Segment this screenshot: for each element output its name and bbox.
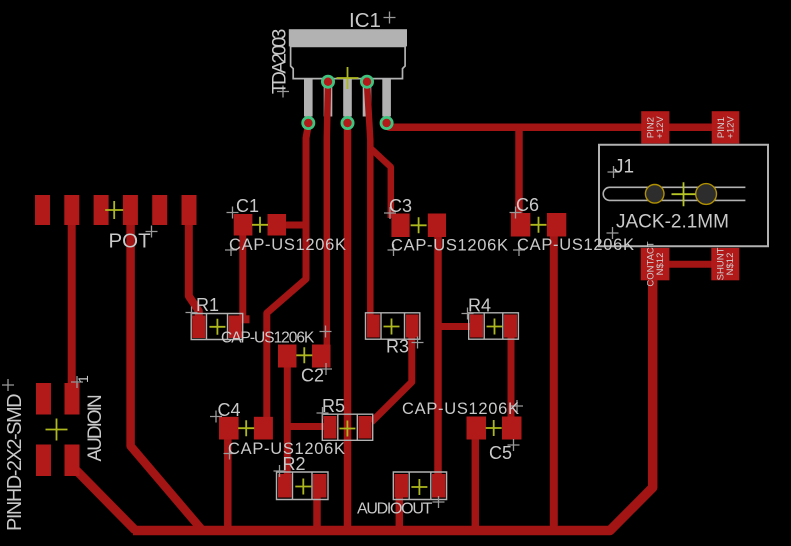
resistor R5 pads xyxy=(324,416,337,439)
wire C5 pad1 to ground bar xyxy=(472,435,480,530)
resistor R4 pads xyxy=(470,315,483,338)
text origin mark xyxy=(277,86,289,98)
J1 pin circle 2 xyxy=(696,184,717,205)
resistor AUDIOOUT outline xyxy=(393,472,446,500)
origin cross R5 xyxy=(339,421,355,437)
text origin mark xyxy=(2,379,14,391)
origin cross R3 xyxy=(384,319,400,335)
text origin mark xyxy=(71,376,83,388)
resistor AUDIOOUT pads xyxy=(395,474,409,498)
text origin mark xyxy=(510,207,522,219)
connector AUDIOIN PINHD-2X2-SMD pads xyxy=(36,383,51,415)
pad PIN1 +12V xyxy=(712,111,740,143)
svg-text:R3: R3 xyxy=(386,337,409,357)
wire branch +12V down to C6 pad1 xyxy=(515,127,523,216)
origin cross R4 xyxy=(487,319,503,335)
text origin mark xyxy=(225,244,237,256)
svg-text:C5: C5 xyxy=(489,443,512,463)
resistor R1 pads xyxy=(192,316,205,339)
svg-text:CAP-US1206K: CAP-US1206K xyxy=(391,237,509,255)
resistor R2 outline xyxy=(277,472,329,500)
text origin mark xyxy=(274,465,286,477)
resistor R3 pads xyxy=(367,315,380,338)
wire CONTACT pad to SHUNT pad xyxy=(666,261,714,268)
wire C6 pad2 to ground bar xyxy=(550,230,558,528)
wire C2 pad1 down to R2 pad1 xyxy=(284,347,291,478)
wire C3 pad2 to AUDIOOUT pad2 xyxy=(434,230,442,488)
svg-text:R5: R5 xyxy=(322,396,345,416)
wire R2 pad2 to ground bar xyxy=(313,495,321,530)
svg-text:1: 1 xyxy=(75,375,91,383)
via IC1 pin5 xyxy=(381,118,392,129)
svg-text:PINHD-2X2-SMD: PINHD-2X2-SMD xyxy=(4,394,26,531)
text origin mark xyxy=(320,363,332,375)
via IC1 pin1 xyxy=(303,118,314,129)
svg-text:CAP-US1206K: CAP-US1206K xyxy=(517,236,635,254)
svg-text:CAP-US1206K: CAP-US1206K xyxy=(221,330,315,347)
text origin mark xyxy=(384,12,396,24)
op-amp IC1 TDA2003 package tab xyxy=(289,29,407,46)
pad CONTACT N$12 xyxy=(641,248,670,280)
wire POT pad2 to AUDIOIN pin1 xyxy=(68,222,76,388)
wire POT pad6 to R1 pad1 xyxy=(189,222,199,320)
wire C1 pad1 to R1 pad2 xyxy=(239,234,246,322)
via IC1 pin4 xyxy=(362,76,373,87)
text origin mark xyxy=(186,307,198,319)
wire branch via4 column to C3 pad1 xyxy=(370,148,391,218)
wire AUDIOIN pin4 to ground bar xyxy=(72,458,136,531)
wire via3 to ground bar xyxy=(344,124,352,530)
svg-text:C6: C6 xyxy=(516,195,539,215)
svg-text:C4: C4 xyxy=(218,400,241,420)
via IC1 pin2 xyxy=(323,76,334,87)
origin cross C2 xyxy=(296,347,312,363)
resistor R5 outline xyxy=(322,414,372,440)
svg-text:R1: R1 xyxy=(196,295,219,315)
resistor R4 outline xyxy=(469,313,519,339)
origin cross C1 xyxy=(252,217,268,233)
capacitor C5 pads xyxy=(467,417,487,440)
text origin mark xyxy=(210,411,222,423)
svg-text:POT: POT xyxy=(109,230,152,253)
text origin mark xyxy=(224,448,236,460)
ground bus bar xyxy=(133,278,653,531)
origin cross R2 xyxy=(295,479,311,495)
wire C4 pad1 to ground bar xyxy=(224,435,232,530)
pad PIN2 +12V xyxy=(641,111,669,143)
text origin mark xyxy=(146,226,158,238)
text origin mark xyxy=(227,207,239,219)
text origin mark xyxy=(320,326,332,338)
connector J1 JACK-2.1MM outline xyxy=(599,145,768,246)
svg-text:CAP-US1206K: CAP-US1206K xyxy=(229,236,347,254)
text origin mark xyxy=(388,244,400,256)
wire via1 to C4 pad2 (through C1 junction) xyxy=(267,125,309,420)
text origin mark xyxy=(317,407,329,419)
wire branch to R4 pad1 xyxy=(438,323,474,330)
capacitor C6 pads xyxy=(511,213,531,237)
wire +12V: via5 to PIN1 pad xyxy=(387,124,735,127)
svg-text:TDA2003: TDA2003 xyxy=(270,29,291,94)
svg-text:AUDIOIN: AUDIOIN xyxy=(85,395,106,461)
text origin mark xyxy=(384,207,396,219)
text origin mark xyxy=(607,227,619,239)
capacitor C1 pads xyxy=(234,214,253,236)
wire branch to R5 pad1 xyxy=(287,423,326,430)
capacitor C4 pads xyxy=(219,417,239,440)
origin cross R1 xyxy=(209,319,225,335)
capacitor C2 pads xyxy=(278,345,297,368)
text origin mark xyxy=(412,337,424,349)
origin cross J1 xyxy=(672,182,696,206)
IC1 pin leads xyxy=(304,79,313,116)
potentiometer POT pads 1-6 xyxy=(35,195,50,225)
text origin mark xyxy=(433,496,445,508)
resistor R2 pads xyxy=(278,474,292,498)
J1 pin circle 1 xyxy=(645,185,664,204)
text origin mark xyxy=(511,400,523,412)
via IC1 pin3 xyxy=(342,118,353,129)
svg-text:AUDIOOUT: AUDIOOUT xyxy=(357,501,433,518)
origin cross C6 xyxy=(531,217,547,233)
J1 barrel symbol xyxy=(603,187,745,200)
wire via4 to R3 pad1 xyxy=(367,83,370,318)
svg-text:JACK-2.1MM: JACK-2.1MM xyxy=(616,212,729,233)
resistor R3 outline xyxy=(366,313,420,339)
IC1 body outline xyxy=(291,46,406,78)
svg-text:J1: J1 xyxy=(614,157,634,178)
svg-text:R2: R2 xyxy=(283,454,306,474)
text origin mark xyxy=(462,308,474,320)
text origin mark xyxy=(513,244,525,256)
svg-text:C2: C2 xyxy=(301,366,324,386)
origin cross AUDIOOUT xyxy=(411,479,427,495)
svg-text:PIN2+12V: PIN2+12V xyxy=(646,116,667,139)
text origin mark xyxy=(608,166,620,178)
resistor R1 outline xyxy=(191,314,243,340)
origin cross C5 xyxy=(486,420,502,436)
svg-text:IC1: IC1 xyxy=(349,9,381,32)
wire stub at R1 pad2 xyxy=(240,315,250,323)
origin cross C3 xyxy=(411,217,427,233)
wire POT pad4 to ground bar xyxy=(131,222,203,531)
origin cross IC1 xyxy=(337,67,359,89)
svg-text:PIN1+12V: PIN1+12V xyxy=(716,116,737,139)
wire via2 to C2 pad2 xyxy=(327,83,328,350)
wire R3 pad2 to R5 pad2 xyxy=(372,330,412,422)
text origin mark xyxy=(508,439,520,451)
svg-text:CAP-US1206K: CAP-US1206K xyxy=(402,400,520,418)
origin cross POT xyxy=(105,201,123,219)
capacitor C3 pads xyxy=(391,214,409,238)
wire AUDIOOUT pad1 to ground bar xyxy=(396,495,404,530)
origin cross C4 xyxy=(238,420,254,436)
wire C1 pad2 to via1 column xyxy=(283,222,307,229)
wire R4 pad2 to C5 pad2 xyxy=(508,330,515,420)
origin cross AUDIOIN xyxy=(46,419,68,441)
pad SHUNT N$12 xyxy=(711,248,739,280)
svg-text:R4: R4 xyxy=(468,296,491,316)
svg-text:C3: C3 xyxy=(389,196,412,216)
svg-text:C1: C1 xyxy=(236,196,259,216)
